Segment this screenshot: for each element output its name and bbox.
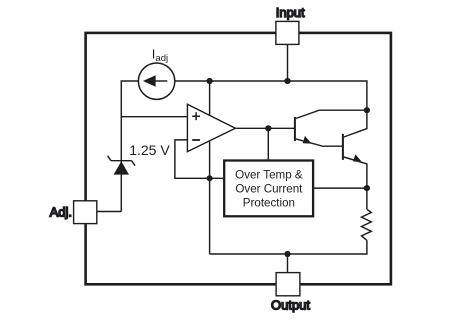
resistor R1 [362, 209, 372, 240]
wire: protection box to emitter node [314, 187, 367, 189]
svg-text:Over Current: Over Current [235, 182, 303, 195]
transistor Q2 [343, 110, 367, 188]
node: output junction [284, 251, 290, 257]
wire: output junction to protection box [267, 128, 269, 161]
node: input rail junction [284, 78, 290, 84]
node: Q2 emitter junction [364, 185, 370, 191]
svg-text:Adj.: Adj. [50, 204, 72, 219]
Input pad [276, 21, 299, 44]
node: I_adj rail junction [207, 78, 213, 84]
transistor Q1 [295, 110, 367, 146]
wire: op-amp output [235, 127, 295, 129]
wire: op-amp bottom to feedback node [209, 141, 211, 254]
wire: feedback from - input to protection box [175, 140, 224, 178]
wire: op-amp + input [121, 116, 187, 118]
svg-text:Protection: Protection [243, 196, 295, 209]
IC outline box [86, 33, 391, 284]
svg-text:Input: Input [276, 5, 305, 20]
svg-text:Output: Output [271, 297, 310, 312]
wire: current source to reference branch [121, 81, 138, 212]
svg-text:Over Temp &: Over Temp & [235, 168, 303, 181]
zener diode D1 1.25V [108, 156, 135, 175]
svg-text:1.25 V: 1.25 V [129, 142, 170, 158]
wire: Input pad to input rail [287, 44, 289, 81]
svg-text:Iadj: Iadj [152, 47, 168, 64]
wire: Adj pad to zener branch [97, 211, 122, 213]
node: feedback junction [207, 175, 213, 181]
wire: resistor to output rail [210, 240, 367, 254]
node: op-amp output junction [265, 125, 271, 131]
op-amp U1 [187, 104, 235, 151]
node: collectors junction [364, 107, 370, 113]
protection block [224, 161, 313, 217]
wire: output junction to Output pad [287, 254, 289, 273]
wire: input rail [175, 81, 367, 110]
wire: op-amp top supply [209, 81, 211, 116]
wire: emitter node to resistor [366, 188, 368, 209]
current source I_adj [138, 63, 174, 99]
Adj pad [74, 201, 97, 224]
Output pad [276, 273, 300, 296]
